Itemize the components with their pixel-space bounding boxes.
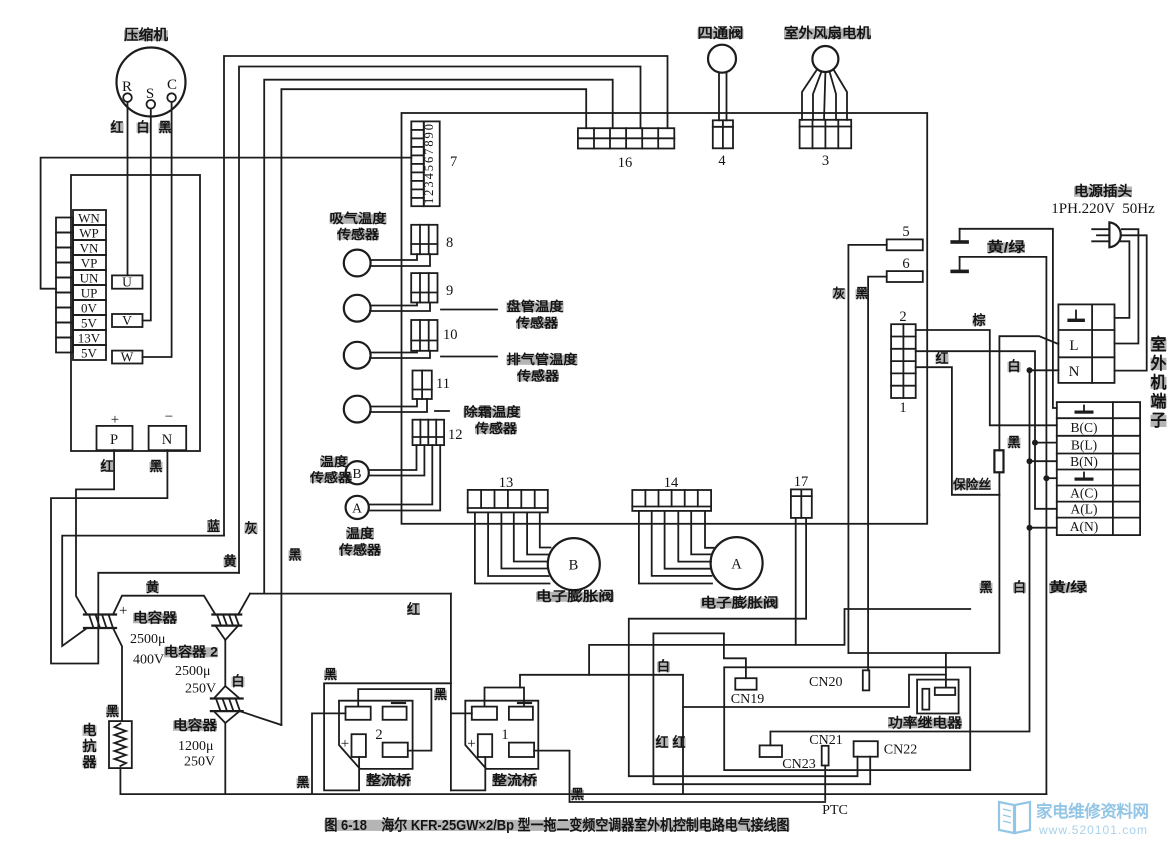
svg-text:红: 红 [936,350,949,366]
svg-text:白: 白 [1008,358,1021,374]
label 电源插头 1PH.220V 50Hz [1051,183,1155,217]
svg-text:4: 4 [718,153,726,169]
svg-text:黑: 黑 [297,775,310,790]
wire bridge1 BR to PTC [534,751,825,802]
wire label 黄 (vertical bus) [224,553,237,569]
connector 12 [413,420,463,445]
svg-text:B(C): B(C) [1071,420,1098,435]
wire label 黑 (fuse top) [1008,435,1021,450]
caption 图6-18 [325,816,790,834]
svg-text:灰: 灰 [245,520,258,536]
svg-text:A(N): A(N) [1070,519,1099,534]
wire label 黑 (bridge2 top) [324,667,337,682]
connector 8 [411,225,453,254]
wire connector2 row2 to B(L) [916,351,1035,442]
wire H4 white [520,675,683,794]
connector 13 [468,475,548,512]
wire red horizontal from cap2 [250,593,451,595]
svg-text:A(C): A(C) [1070,486,1098,501]
wire bus blue (connector 16 pin1) [224,56,668,536]
watermark book icon [999,802,1030,833]
wire white feed to relay [683,675,946,707]
connector 11 [413,371,450,400]
label 室外机端子 [1151,334,1167,430]
svg-text:黄: 黄 [146,579,159,595]
svg-text:电容器: 电容器 [173,717,218,733]
wire label 红 (right of H4 drop) [673,734,686,750]
wire label 白 (right bottom) [1013,579,1026,595]
wire bus black (connector 16 pin4) [281,89,586,725]
svg-text:蓝: 蓝 [207,518,220,534]
svg-text:盘管温度: 盘管温度 [507,299,565,314]
wire label 棕 [972,312,986,328]
svg-text:2: 2 [375,727,382,743]
svg-text:13: 13 [499,475,514,491]
svg-text:温度: 温度 [320,454,349,469]
svg-text:抗: 抗 [83,738,97,754]
wire label 红 (left of H4 drop) [656,734,669,750]
svg-text:电源插头: 电源插头 [1074,183,1132,199]
svg-text:7: 7 [450,154,457,170]
svg-text:250V: 250V [185,682,216,697]
svg-text:电子膨胀阀: 电子膨胀阀 [701,595,779,611]
fuse [994,450,1003,472]
svg-text:功率继电器: 功率继电器 [888,715,963,731]
svg-text:1234567890: 1234567890 [422,124,436,204]
svg-text:室: 室 [1151,334,1167,354]
svg-text:四通阀: 四通阀 [698,25,744,41]
wire CN21 to PTC [824,766,826,801]
wire label 黑 (vertical bus) [289,548,302,563]
wire valve to connector 4 [719,72,727,120]
svg-text:电容器 2: 电容器 2 [164,644,218,660]
wire label 黑 (bridge2 bottom left) [297,775,310,790]
wire bridge1 AC input [451,712,472,714]
svg-text:家电维修资料网: 家电维修资料网 [1036,801,1149,821]
label 温度传感器 B [309,454,353,485]
wire black fuse net to L [999,336,1058,450]
svg-text:N: N [1069,364,1080,380]
connector 5 [887,224,923,250]
wires connector 13 to valve B [475,512,551,583]
label 吸气温度传感器 [330,211,388,242]
wire black from connector 6 to CN20 [868,277,887,671]
compressor label 压缩机 [124,26,169,44]
wires fan motor to connector 3 [802,70,847,120]
svg-text:5V: 5V [81,346,98,361]
wire label 黑 (right bottom) [980,580,993,595]
terminal U [112,275,143,290]
svg-text:1PH.220V 50Hz: 1PH.220V 50Hz [1051,201,1155,217]
label PTC [822,803,848,818]
svg-text:0V: 0V [81,301,98,316]
junction dot ground2 terminal [1043,475,1056,481]
svg-text:8: 8 [446,235,453,251]
svg-text:黑: 黑 [1008,435,1021,450]
wire label 黄/绿 (right bottom) [1049,579,1088,595]
terminal V [112,313,143,328]
capacitor C1 labels [130,610,178,668]
wire grey from connector 5 [848,245,886,653]
svg-text:UN: UN [80,271,99,286]
wire bus grey (connector 16 pin3) [264,80,613,594]
svg-text:整流桥: 整流桥 [492,772,538,788]
svg-text:L: L [1069,338,1078,354]
svg-text:B(N): B(N) [1070,454,1098,469]
wire red connector2 to fuse bottom [916,367,1000,495]
wire label 白 (H4) [657,658,670,674]
svg-text:黑: 黑 [289,548,302,563]
connector CN21 [809,733,842,766]
capacitor C1 [84,603,127,628]
connector 4 [713,120,733,169]
rectifier bridge 1 [465,701,538,769]
expansion valve A [711,537,763,589]
svg-text:5V: 5V [81,316,98,331]
wire label 黑 (bridge2 right) [434,687,447,702]
svg-text:红: 红 [101,458,114,474]
connector 2/1 [891,309,916,416]
svg-text:C: C [167,77,177,93]
power plug [1092,222,1121,247]
label 保险丝 [952,477,991,492]
wire cap1 right bottom to reactor [113,628,122,721]
wire label 黄/绿 [987,239,1026,255]
wire CN22 right drop to H2 [653,633,870,784]
svg-text:机: 机 [1151,372,1167,392]
wire label 红 [936,350,949,366]
connector 6 [887,256,923,282]
wire cap2 right to red bus [238,594,250,615]
wires connector 14 to valve A [639,511,714,584]
wire ground1 to terminal [960,229,1057,408]
wire bridge2 TL-BR loop [358,689,431,751]
wire P red to capacitor 1 [76,450,114,614]
junction dots white bus [1027,367,1033,530]
svg-text:黄/绿: 黄/绿 [1049,579,1088,595]
svg-text:S: S [146,86,154,102]
svg-text:黑: 黑 [434,687,447,702]
connector CN20 [809,670,869,690]
svg-text:传感器: 传感器 [338,543,382,558]
svg-text:6: 6 [902,256,909,272]
wire plug N [1115,235,1147,370]
svg-text:黑: 黑 [159,120,172,135]
terminal W [112,350,143,365]
wire cap2 bottom to cap3 [214,626,240,699]
wires sensor to connector 9 [370,303,430,312]
svg-text:250V: 250V [184,755,215,770]
svg-text:压缩机: 压缩机 [124,26,169,44]
power board outline [724,667,970,770]
svg-text:9: 9 [446,283,453,299]
svg-text:A: A [352,501,362,516]
wire top-left bus to connector 7 [41,158,412,289]
wire N yellow loop [51,450,239,663]
label 电子膨胀阀 (B) [536,588,614,604]
svg-text:CN22: CN22 [884,743,917,758]
rectifier bridge 2 [339,701,413,769]
wire label 黑 (bridge1 bottom) [571,787,584,802]
svg-text:1: 1 [899,400,906,416]
wire connector 17 left pin down [795,518,797,645]
terminal P [97,412,133,450]
capacitor C3 labels [173,717,218,770]
svg-text:外: 外 [1151,353,1167,373]
wire label 黄 (cap link) [146,579,159,595]
temp sensor A [346,496,369,519]
svg-text:WP: WP [79,226,99,241]
svg-text:+: + [467,736,475,752]
wires connector 12 to sensors B and A [369,445,440,510]
svg-text:10: 10 [443,327,458,343]
svg-text:图 6-18 海尔 KFR-25GW×2/Bp 型一拖: 图 6-18 海尔 KFR-25GW×2/Bp 型一拖二变频空调器室外机控制电路… [325,816,790,834]
svg-text:A(L): A(L) [1071,502,1098,517]
leader 盘管温度传感器 [441,299,565,331]
svg-text:B: B [569,558,579,574]
svg-text:14: 14 [664,475,679,491]
svg-text:N: N [162,432,173,448]
svg-text:排气管温度: 排气管温度 [507,352,579,367]
label 整流桥 (1) [492,772,538,788]
inverter module box [71,175,200,451]
connector 9 [411,273,453,302]
svg-text:黑: 黑 [856,286,869,301]
svg-text:红: 红 [656,734,669,750]
wire ground2 yellow/green down to bottom bus [960,257,1047,794]
svg-text:白: 白 [657,658,670,674]
rectifier bridge 1 BR pad [509,743,534,757]
svg-text:3: 3 [822,153,829,169]
svg-text:CN23: CN23 [782,757,815,772]
connector 17 [791,474,812,518]
svg-text:R: R [122,79,132,95]
wire R to U [127,102,129,276]
wire bridge1 plus drop [451,757,485,790]
svg-text:黑: 黑 [324,667,337,682]
connector CN19 [731,678,764,707]
wires sensor to connector 11 [370,399,427,412]
wire label 黑 (reactor top) [106,704,119,719]
svg-text:黑: 黑 [150,459,163,474]
wire plug L [1115,229,1139,343]
wire B(L)/A(L) link [1035,443,1057,509]
svg-text:白: 白 [137,119,150,135]
svg-text:温度: 温度 [346,526,375,541]
svg-text:11: 11 [436,376,450,392]
wire white neutral bus [770,370,1058,745]
reactor 电抗器 [109,721,132,768]
svg-text:A: A [731,557,742,573]
svg-text:黑: 黑 [106,704,119,719]
svg-text:1200μ: 1200μ [178,739,214,754]
wires sensor to connector 10 [370,351,430,358]
wire cap3 bottom to bus [214,711,240,794]
svg-text:除霜温度: 除霜温度 [464,405,522,420]
svg-text:器: 器 [82,754,98,770]
wire bridge1 TL-TR loop [485,688,525,707]
wires sensor to connector 8 [370,254,430,266]
outdoor fan motor [812,46,838,72]
svg-text:VP: VP [81,256,98,271]
svg-text:吸气温度: 吸气温度 [330,211,388,226]
wire reactor bottom to bus [119,768,121,794]
wire black bus diagonal into cap3 [240,711,282,725]
connector 14 [632,475,711,511]
svg-text:P: P [110,432,118,448]
svg-text:12: 12 [448,427,463,443]
wire label 灰 [245,520,258,536]
wire plug ground to terminal [1115,241,1130,318]
connector CN23 [760,745,816,772]
svg-text:V: V [122,313,132,328]
svg-text:室外风扇电机: 室外风扇电机 [784,25,871,41]
svg-text:传感器: 传感器 [515,316,559,331]
leader 除霜温度传感器 [435,405,522,437]
discharge pipe temp sensor [344,342,371,369]
connector CN22 [854,741,918,757]
wire bridge2 AC input [312,713,346,794]
svg-text:+: + [341,736,349,752]
svg-text:整流桥: 整流桥 [366,772,412,788]
svg-text:传感器: 传感器 [336,227,380,242]
svg-text:电子膨胀阀: 电子膨胀阀 [536,588,614,604]
svg-text:1: 1 [501,727,508,743]
connector 16 [578,128,674,171]
leader 排气管温度传感器 [441,352,579,384]
svg-text:子: 子 [1151,412,1167,430]
svg-text:黄/绿: 黄/绿 [987,239,1026,255]
svg-text:CN20: CN20 [809,675,842,690]
svg-text:400V: 400V [133,653,164,668]
junction dot B(L) [1032,440,1038,446]
wire relay riser [945,653,947,688]
wire bridge2 plus loop [324,683,451,790]
svg-text:棕: 棕 [972,312,986,328]
svg-text:CN19: CN19 [731,692,764,707]
wire brown connector2 to B(C) [916,330,1057,425]
svg-text:红: 红 [407,601,420,617]
svg-text:UP: UP [81,286,98,301]
wire cap1 right top to cap2 [113,596,215,615]
defrost temp sensor [344,396,371,423]
connector 10 [411,320,457,351]
svg-text:红: 红 [673,734,686,750]
label 整流桥 (2) [366,772,412,788]
wire fuse to CN20 bus [848,472,999,653]
svg-text:B: B [352,466,361,481]
svg-text:5: 5 [902,224,909,240]
svg-text:W: W [121,350,134,365]
wire bottom bus [120,793,1046,795]
svg-text:+: + [119,603,127,619]
ground symbol 2 [950,257,969,273]
wire red bus vertical [450,594,452,791]
wire connector 17 right pin to H1 [805,518,807,619]
connector 7 [411,121,457,206]
svg-text:黄: 黄 [224,553,237,569]
wire label 白 (cap stack) [232,673,245,689]
wire CN19 riser [724,633,746,678]
wire bus yellow (connector 16 pin2) [239,67,641,573]
svg-text:WN: WN [78,211,100,226]
suction temp sensor [344,250,371,277]
inverter terminal labels WN..5V [73,210,106,361]
capacitor C3 [211,699,243,712]
svg-text:2500μ: 2500μ [130,632,166,647]
svg-text:2: 2 [899,309,906,325]
connector 3 [800,120,852,169]
svg-text:17: 17 [794,474,809,490]
svg-text:+: + [111,412,119,428]
ground symbol 1 [950,229,969,244]
svg-text:16: 16 [618,155,633,171]
main control board outline [402,113,928,524]
svg-text:电: 电 [83,722,97,738]
svg-text:VN: VN [80,241,99,256]
power relay 功率继电器 [888,680,963,731]
wire label 黑 [856,286,869,301]
svg-text:−: − [165,409,173,425]
capacitor C2 [212,615,241,626]
svg-text:传感器: 传感器 [516,369,560,384]
coil temp sensor [344,295,371,322]
svg-text:灰: 灰 [833,286,846,301]
wire label 红 (red bus) [407,601,420,617]
svg-text:传感器: 传感器 [474,421,518,436]
wire H3 [589,609,970,675]
terminal N [149,409,187,450]
wire label 黑 (N lead) [150,459,163,474]
svg-text:www.520101.com: www.520101.com [1038,823,1147,837]
terminal block A/B [1057,402,1140,535]
svg-text:黑: 黑 [980,580,993,595]
svg-text:白: 白 [1013,579,1026,595]
label 四通阀 [698,25,744,41]
svg-text:电容器: 电容器 [133,610,178,626]
four-way valve coil [708,45,736,73]
terminal block L/N [1058,304,1114,383]
svg-text:13V: 13V [78,331,101,346]
label 电抗器 [82,722,98,770]
svg-text:PTC: PTC [822,803,848,818]
wire blue to capacitor 1 [62,536,224,646]
svg-text:白: 白 [232,673,245,689]
svg-text:端: 端 [1151,391,1167,411]
svg-text:红: 红 [111,119,124,135]
label 室外风扇电机 [784,25,871,41]
svg-text:B(L): B(L) [1071,438,1097,453]
wire label 红 (P lead) [101,458,114,474]
compressor [117,48,186,117]
svg-text:2500μ: 2500μ [175,664,211,679]
wire label 白 [1008,358,1021,374]
wire S to V [143,109,151,321]
expansion valve B [548,538,600,590]
wire label 蓝 [207,518,220,534]
svg-text:保险丝: 保险丝 [952,477,991,492]
svg-text:CN21: CN21 [809,733,842,748]
temp sensor B [346,461,369,484]
wire C to W [143,102,172,357]
label 温度传感器 A [338,526,382,558]
inverter connector stubs [56,218,73,353]
capacitor C2 labels [164,644,218,697]
rectifier bridge 2 BR pad [383,743,408,757]
label 电子膨胀阀 (A) [701,595,779,611]
watermark text [1036,801,1149,837]
wire label 灰 [833,286,846,301]
